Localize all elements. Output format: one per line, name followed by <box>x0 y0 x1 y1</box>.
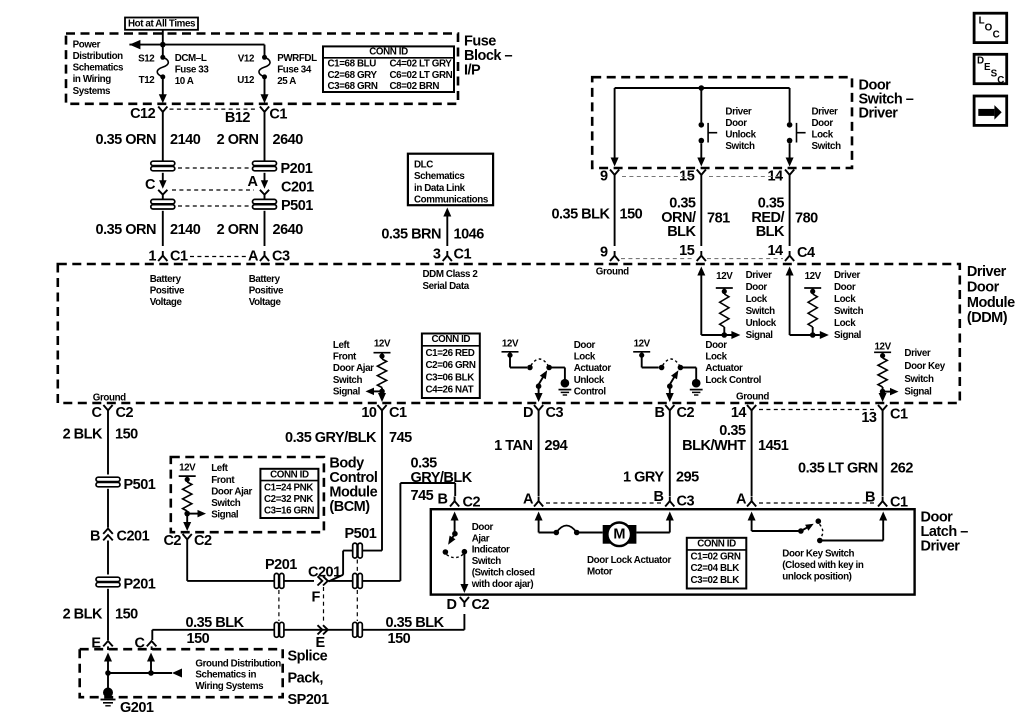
svg-text:Door: Door <box>472 522 494 533</box>
inline connector P501 ground wire <box>96 477 156 493</box>
svg-text:0.35: 0.35 <box>719 423 746 439</box>
dashed connector link pin1-pinA <box>190 256 249 258</box>
svg-text:B: B <box>438 492 448 508</box>
svg-text:DLC: DLC <box>414 159 433 170</box>
svg-text:D: D <box>977 56 984 67</box>
svg-text:V12: V12 <box>238 53 255 64</box>
wire 294 1 TAN <box>538 415 540 496</box>
svg-text:Battery: Battery <box>150 274 182 285</box>
svg-text:12V: 12V <box>716 271 733 282</box>
svg-text:2640: 2640 <box>273 132 304 148</box>
door switch pin 9 <box>600 168 619 184</box>
CONN ID table for BCM <box>260 469 318 518</box>
svg-text:C2: C2 <box>472 597 490 613</box>
door latch pin A motor <box>523 492 543 508</box>
label 2 BLK 150 lower <box>63 607 139 623</box>
svg-text:Signal: Signal <box>211 510 239 521</box>
svg-text:Door Lock Actuator: Door Lock Actuator <box>587 555 671 566</box>
svg-text:10: 10 <box>361 405 377 421</box>
svg-text:P501: P501 <box>345 526 377 542</box>
svg-text:B12: B12 <box>225 110 251 126</box>
svg-text:Positive: Positive <box>249 285 284 296</box>
svg-text:3: 3 <box>433 247 441 263</box>
svg-text:P201: P201 <box>281 161 313 177</box>
svg-text:Left: Left <box>333 340 350 351</box>
svg-text:C3=16 GRN: C3=16 GRN <box>264 506 314 517</box>
svg-text:B: B <box>90 529 100 545</box>
svg-text:Switch: Switch <box>211 498 241 509</box>
svg-text:DDM Class 2: DDM Class 2 <box>423 269 479 280</box>
label 0.35 BLK 150 <box>551 207 642 223</box>
motor M door lock actuator <box>603 523 637 547</box>
svg-text:Positive: Positive <box>150 285 185 296</box>
svg-text:Schematics in: Schematics in <box>195 670 256 681</box>
label 2 ORN 2640 lower <box>217 222 304 238</box>
wire 745 DDM branch <box>329 415 383 582</box>
label 0.35 LT GRN 262 <box>798 460 913 476</box>
fuse F33 terminal labels S12 T12 <box>138 53 155 86</box>
label 0.35 GRY/BLK 745 at latch <box>411 456 473 504</box>
door lock actuator unlock control relay <box>502 339 565 403</box>
svg-text:2640: 2640 <box>273 222 304 238</box>
svg-text:Lock: Lock <box>746 294 768 305</box>
svg-text:0.35 ORN: 0.35 ORN <box>96 132 156 148</box>
svg-text:12V: 12V <box>805 271 822 282</box>
door key switch <box>748 512 888 544</box>
svg-text:with door ajar): with door ajar) <box>471 579 534 590</box>
svg-text:13: 13 <box>861 410 877 426</box>
DDM pin 15 <box>679 243 706 261</box>
door latch pin B C1 <box>865 490 908 511</box>
label A terminal <box>248 174 259 190</box>
inline connector P201 on ground wire <box>274 622 284 637</box>
svg-text:Door: Door <box>812 118 834 129</box>
svg-text:PWRFDL: PWRFDL <box>277 53 317 64</box>
svg-text:C1: C1 <box>890 407 908 423</box>
svg-text:C: C <box>145 177 156 193</box>
svg-text:C2=04 BLK: C2=04 BLK <box>691 563 740 574</box>
door latch pin A key switch <box>736 492 756 508</box>
label Battery Positive Voltage right <box>249 274 284 308</box>
driver door unlock switch <box>697 88 717 167</box>
svg-text:P501: P501 <box>281 198 313 214</box>
fuse F34 PWRFDL <box>259 55 270 80</box>
svg-text:D: D <box>523 405 533 421</box>
svg-text:C4: C4 <box>797 245 815 261</box>
svg-text:1 TAN: 1 TAN <box>494 438 532 454</box>
door latch pin D C2 <box>447 597 490 613</box>
svg-text:Door: Door <box>725 118 747 129</box>
svg-text:F: F <box>312 590 321 606</box>
DDM pin 14 C4 <box>767 243 815 261</box>
svg-text:Actuator: Actuator <box>574 363 612 374</box>
svg-text:Switch: Switch <box>333 375 363 386</box>
connector C201 cavity F <box>308 565 341 606</box>
door switch feed bus wire <box>615 85 790 91</box>
DDM unlock signal circuit wire <box>697 267 740 340</box>
svg-text:CONN ID: CONN ID <box>432 334 471 345</box>
svg-text:C2: C2 <box>163 533 181 549</box>
svg-text:Door: Door <box>705 340 727 351</box>
svg-text:Lock Control: Lock Control <box>705 375 761 386</box>
connector C201 cavity E <box>316 625 328 651</box>
svg-text:A: A <box>248 174 259 190</box>
ground symbol lock control <box>690 379 703 395</box>
svg-text:12V: 12V <box>179 462 196 473</box>
label 0.35 ORN 2140 upper <box>96 132 201 148</box>
DESC reference box <box>974 54 1007 86</box>
svg-text:C3: C3 <box>677 494 695 510</box>
label Ground pin C <box>93 392 126 403</box>
splice pack ground bus <box>104 653 172 690</box>
svg-text:Driver: Driver <box>725 107 752 118</box>
Door Switch Driver dashed box <box>592 77 852 168</box>
dashed link C201 vertical <box>323 587 325 623</box>
svg-text:C1: C1 <box>269 107 287 123</box>
inline connector P501 on latch branch <box>353 573 363 588</box>
connector B12 C1 <box>225 107 287 126</box>
door ajar indicator switch <box>443 512 469 594</box>
svg-text:Voltage: Voltage <box>249 297 282 308</box>
dashed connector link latch A-B right <box>759 502 875 504</box>
svg-text:150: 150 <box>620 207 643 223</box>
label P201 <box>281 161 313 177</box>
label Ground pin 9 <box>596 267 629 278</box>
svg-text:P201: P201 <box>124 577 156 593</box>
BCM 12V door ajar circuit <box>179 462 206 531</box>
label 2 BLK 150 upper <box>63 427 139 443</box>
dashed link P501 pair <box>178 205 249 207</box>
connector C12 <box>130 106 167 122</box>
wire 150 2 BLK upper <box>107 415 109 475</box>
svg-text:DCM–L: DCM–L <box>175 53 207 64</box>
fuse F33 DCM-L <box>157 55 168 80</box>
svg-text:A: A <box>248 249 259 265</box>
svg-text:781: 781 <box>707 211 730 227</box>
label Door Switch - Driver <box>859 78 914 122</box>
svg-text:Switch: Switch <box>904 374 934 385</box>
svg-text:Wiring Systems: Wiring Systems <box>195 681 264 692</box>
label Fuse Block - I/P <box>464 34 513 79</box>
svg-text:C2: C2 <box>194 533 212 549</box>
svg-text:SP201: SP201 <box>288 692 329 708</box>
svg-text:Driver: Driver <box>812 107 839 118</box>
fuse F34 terminal labels V12 U12 <box>237 53 255 86</box>
svg-text:0.35 BLK: 0.35 BLK <box>386 615 445 631</box>
DDM pin B C2 <box>655 405 695 421</box>
svg-text:CONN ID: CONN ID <box>369 46 408 57</box>
svg-text:(Switch closed: (Switch closed <box>472 568 535 579</box>
svg-text:C2: C2 <box>116 405 134 421</box>
svg-text:262: 262 <box>890 460 913 476</box>
svg-text:Door Key: Door Key <box>904 361 945 372</box>
svg-text:C1: C1 <box>389 405 407 421</box>
resistor lock signal <box>808 288 817 335</box>
wire 745 to door latch <box>329 483 456 581</box>
inline connector P201 right <box>253 161 277 171</box>
wire ground mid segment <box>107 489 109 528</box>
svg-text:unlock position): unlock position) <box>782 572 851 583</box>
door switch pin 15 <box>679 168 706 184</box>
fuse block I/P dashed box <box>66 34 458 104</box>
wire 295 1 GRY <box>669 415 671 496</box>
svg-text:Driver: Driver <box>859 106 899 122</box>
arrow to Power Distribution Schematics <box>129 40 140 50</box>
next page arrow box <box>974 96 1007 125</box>
label 0.35 RED/BLK 780 <box>751 196 818 241</box>
svg-text:C1: C1 <box>454 247 472 263</box>
svg-text:12V: 12V <box>502 339 519 350</box>
svg-text:1: 1 <box>148 249 156 265</box>
svg-text:C12: C12 <box>130 106 156 122</box>
svg-text:Systems: Systems <box>73 86 111 97</box>
svg-text:2 BLK: 2 BLK <box>63 607 103 623</box>
wire 2140 upper segment 0.35 ORN <box>162 117 164 164</box>
DDM pin 1 C1 <box>148 249 188 265</box>
connector E splice pack <box>91 636 112 652</box>
DDM pin 10 C1 <box>361 405 407 421</box>
svg-text:P501: P501 <box>124 477 156 493</box>
svg-text:Indicator: Indicator <box>472 545 510 556</box>
svg-text:745: 745 <box>389 430 412 446</box>
svg-text:Signal: Signal <box>834 330 862 341</box>
12V source for lock signal <box>804 271 821 294</box>
svg-text:in Wiring: in Wiring <box>73 74 112 85</box>
svg-text:Ground: Ground <box>93 392 126 403</box>
svg-text:BLK: BLK <box>667 224 696 240</box>
svg-text:Driver: Driver <box>746 270 773 281</box>
door lock actuator lock control relay <box>633 339 696 403</box>
label Body Control Module (BCM) <box>329 456 377 515</box>
wire 1451 0.35 BLK/WHT <box>751 415 753 496</box>
svg-text:150: 150 <box>187 631 210 647</box>
svg-text:Signal: Signal <box>333 387 361 398</box>
svg-text:C4=02 LT GRY: C4=02 LT GRY <box>390 59 453 70</box>
label 1 TAN 294 <box>494 438 567 454</box>
dashed link C201 pair <box>172 189 254 191</box>
dashed link P201 pair <box>178 167 249 169</box>
Splice Pack SP201 dashed box <box>80 649 283 697</box>
label Driver Door Module (DDM) <box>967 264 1015 326</box>
svg-text:C3: C3 <box>546 405 564 421</box>
svg-text:Ground: Ground <box>596 267 629 278</box>
svg-text:294: 294 <box>545 438 568 454</box>
svg-text:Lock: Lock <box>812 130 834 141</box>
note Ground Distribution Schematics in Wiring Systems <box>195 659 281 692</box>
svg-text:C2: C2 <box>677 405 695 421</box>
svg-text:2140: 2140 <box>170 132 201 148</box>
svg-text:Signal: Signal <box>746 330 774 341</box>
driver door key switch signal circuit <box>874 342 898 403</box>
svg-text:C2=32 PNK: C2=32 PNK <box>264 494 313 505</box>
svg-text:Control: Control <box>574 387 607 398</box>
inline connector P501 right <box>253 199 277 209</box>
BCM pin C2 C2 <box>163 533 212 549</box>
svg-text:Block –: Block – <box>464 48 513 64</box>
svg-text:9: 9 <box>600 245 608 261</box>
svg-text:2 ORN: 2 ORN <box>217 132 259 148</box>
svg-text:G201: G201 <box>120 700 154 716</box>
wire fuse F33 to connector C12 <box>159 77 167 103</box>
svg-text:Switch: Switch <box>834 306 864 317</box>
DDM pin C C2 <box>92 405 134 421</box>
svg-text:1451: 1451 <box>758 438 789 454</box>
label Door Lock Actuator Motor <box>587 555 671 578</box>
svg-text:Ajar: Ajar <box>472 533 490 544</box>
svg-text:Door Ajar: Door Ajar <box>211 486 252 497</box>
junction box label: Hot at All Times <box>125 18 198 30</box>
svg-text:Hot at All Times: Hot at All Times <box>128 18 196 29</box>
svg-text:Signal: Signal <box>904 387 932 398</box>
svg-text:in Data Link: in Data Link <box>414 183 466 194</box>
svg-text:C: C <box>92 405 103 421</box>
svg-text:2 ORN: 2 ORN <box>217 222 259 238</box>
svg-text:C: C <box>993 30 1000 41</box>
DDM pin A C3 <box>248 249 290 265</box>
label Left Front Door Ajar Switch Signal BCM <box>211 463 252 520</box>
svg-text:P201: P201 <box>265 557 297 573</box>
svg-text:745: 745 <box>411 488 434 504</box>
svg-text:C3: C3 <box>272 249 290 265</box>
svg-text:Driver: Driver <box>834 270 861 281</box>
LOC reference box <box>974 13 1007 42</box>
label 0.35 GRY/BLK 745 at pin 10 <box>285 430 412 446</box>
svg-text:M: M <box>613 527 625 543</box>
DDM lock signal circuit wire <box>786 267 829 340</box>
svg-text:C8=02 BRN: C8=02 BRN <box>390 81 440 92</box>
inline connector P201 ground wire <box>96 577 156 593</box>
svg-text:Door Key Switch: Door Key Switch <box>782 549 854 560</box>
wire 2140 lower segment <box>162 211 164 246</box>
label Door Key Switch <box>782 549 864 583</box>
ground G201 <box>101 688 154 717</box>
svg-text:C: C <box>135 636 146 652</box>
svg-text:12V: 12V <box>874 342 891 353</box>
svg-text:Door: Door <box>967 279 1000 295</box>
arrow to Ground Distribution Schematics <box>172 669 182 678</box>
Body Control Module dashed box <box>171 457 324 532</box>
wire 262 0.35 LT GRN <box>882 415 884 496</box>
wire 781 0.35 ORN/BLK <box>700 180 702 247</box>
svg-text:D: D <box>447 597 457 613</box>
label 2 ORN 2640 upper <box>217 132 304 148</box>
svg-text:O: O <box>985 22 993 33</box>
svg-text:C3=68 GRN: C3=68 GRN <box>328 81 378 92</box>
svg-text:I/P: I/P <box>464 63 481 79</box>
svg-text:Voltage: Voltage <box>150 297 183 308</box>
svg-text:780: 780 <box>795 211 818 227</box>
svg-text:Door: Door <box>574 340 596 351</box>
svg-text:GRY/BLK: GRY/BLK <box>411 470 473 486</box>
svg-text:(DDM): (DDM) <box>967 310 1008 326</box>
wire 745 from BCM <box>187 544 314 581</box>
label 0.35 ORN 2140 lower <box>96 222 201 238</box>
wire 1046 to DLC <box>443 208 451 247</box>
wire from Hot at All Times to fuses <box>129 30 264 58</box>
svg-text:Battery: Battery <box>249 274 281 285</box>
inline connector P501 left <box>151 199 175 209</box>
svg-text:10 A: 10 A <box>175 76 194 87</box>
svg-text:150: 150 <box>388 631 411 647</box>
svg-text:Fuse: Fuse <box>464 34 496 50</box>
DDM pin D C3 <box>523 405 563 421</box>
dashed connector link 14-13 <box>759 409 875 411</box>
svg-text:C3=02 BLK: C3=02 BLK <box>691 575 740 586</box>
svg-text:C2=68 GRY: C2=68 GRY <box>328 70 378 81</box>
dashed link P501 vertical <box>356 560 358 622</box>
fuse F34 value label <box>277 53 317 87</box>
DDM pin 9 <box>600 245 619 262</box>
svg-text:T12: T12 <box>139 75 156 86</box>
CONN ID table for DDM <box>422 334 480 399</box>
svg-text:Door: Door <box>746 282 768 293</box>
svg-text:Switch: Switch <box>812 141 842 152</box>
wire fuse F34 to connector B12 C1 <box>261 77 269 103</box>
connector C splice pack <box>135 636 157 652</box>
inline connector P201 left <box>151 161 175 171</box>
svg-text:0.35 BLK: 0.35 BLK <box>186 615 245 631</box>
door latch pin B C3 <box>654 489 695 510</box>
svg-text:CONN ID: CONN ID <box>270 469 309 480</box>
svg-text:Door Ajar: Door Ajar <box>333 363 374 374</box>
label C201 <box>281 180 314 196</box>
svg-text:C1=24 PNK: C1=24 PNK <box>264 483 313 494</box>
label 0.35 BLK/WHT 1451 <box>682 423 789 454</box>
connector B C201 ground wire <box>90 529 150 575</box>
svg-text:B: B <box>655 405 665 421</box>
label Driver Door Unlock Switch <box>725 107 756 153</box>
svg-text:150: 150 <box>115 607 138 623</box>
ground symbol unlock control <box>559 379 572 395</box>
svg-text:0.35 BLK: 0.35 BLK <box>551 207 610 223</box>
svg-text:Actuator: Actuator <box>705 363 743 374</box>
DLC note box <box>408 154 493 206</box>
svg-text:Lock: Lock <box>705 351 727 362</box>
svg-text:12V: 12V <box>634 339 651 350</box>
svg-text:Module: Module <box>967 295 1015 311</box>
svg-text:E: E <box>316 635 326 651</box>
CONN ID table for fuse block <box>323 46 454 92</box>
label P501 <box>281 198 313 214</box>
svg-text:Door: Door <box>834 282 856 293</box>
12V source for unlock signal <box>716 271 733 294</box>
splice pack branch C wire <box>147 653 155 674</box>
label DDM Class 2 Serial Data <box>423 269 479 292</box>
label Left Front Door Ajar Switch Signal DDM <box>333 340 374 398</box>
svg-text:A: A <box>736 492 747 508</box>
left front door ajar signal circuit <box>366 339 391 403</box>
label Ground pin 14 <box>736 391 769 402</box>
wire 150 2 BLK lower <box>107 589 109 640</box>
dashed connector link C12-B12 <box>170 108 257 110</box>
wire pin 9 inside door switch <box>611 88 619 167</box>
inline connector P501 on ground wire <box>353 622 363 637</box>
svg-text:C2=06 GRN: C2=06 GRN <box>426 360 476 371</box>
svg-text:Unlock: Unlock <box>574 375 605 386</box>
label C terminal <box>145 177 156 193</box>
svg-text:Ground: Ground <box>736 391 769 402</box>
svg-text:Ground Distribution: Ground Distribution <box>195 659 281 670</box>
DDM pin 14 bottom <box>731 405 756 421</box>
driver door lock switch <box>786 88 806 167</box>
label 1 GRY 295 <box>623 469 699 485</box>
wire 150 0.35 BLK horizontal <box>152 614 464 640</box>
door lock actuator motor circuit <box>535 512 674 536</box>
svg-text:0.35 ORN: 0.35 ORN <box>96 222 156 238</box>
svg-text:2140: 2140 <box>170 222 201 238</box>
svg-text:14: 14 <box>767 243 783 259</box>
svg-text:Schematics: Schematics <box>73 63 124 74</box>
